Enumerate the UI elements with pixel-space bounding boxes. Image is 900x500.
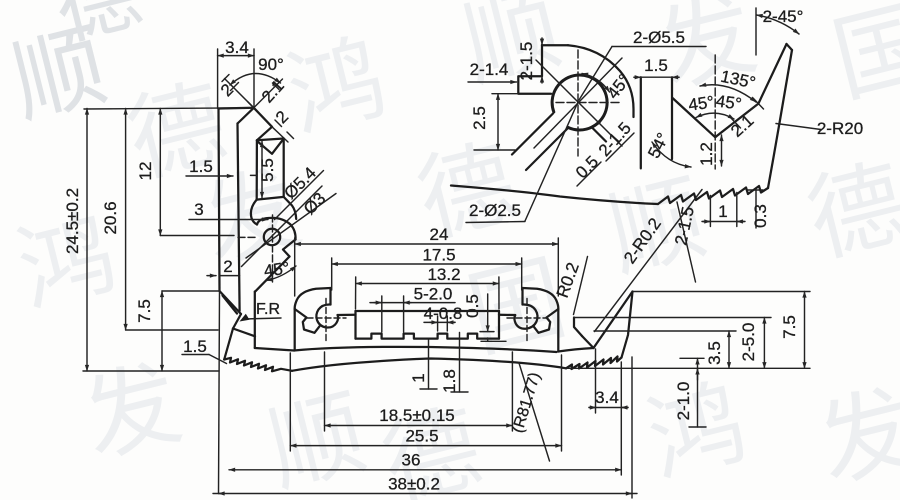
ext line y371 left bbox=[83, 370, 219, 372]
detail slot wall A bbox=[512, 114, 553, 155]
arc 45 deg boss bbox=[267, 266, 297, 281]
svg-text:3: 3 bbox=[194, 200, 203, 219]
svg-text:17.5: 17.5 bbox=[422, 246, 455, 265]
arc 45-45 deg bbox=[696, 113, 734, 119]
svg-text:1.2: 1.2 bbox=[697, 142, 716, 166]
detail bottom edge curve bbox=[451, 186, 658, 205]
detail R20 outer curve bbox=[768, 50, 792, 188]
dim 2-1.0 vertical bbox=[697, 358, 699, 427]
leader 2-1.5 serr bbox=[677, 202, 696, 282]
dim 2-5.0 vertical bbox=[763, 318, 765, 369]
dim 2-1.0 underline bbox=[689, 426, 706, 428]
svg-text:45°: 45° bbox=[715, 91, 743, 113]
arc 54 deg bbox=[652, 142, 691, 167]
dim 1.8 vertical bbox=[459, 333, 461, 393]
dim 4-0.8 line bbox=[424, 321, 455, 323]
leader diam 5.4 bbox=[275, 171, 324, 220]
left wall left face bbox=[219, 109, 220, 292]
dim 1.5 line wall bbox=[186, 175, 233, 177]
diag SE dim extension bbox=[272, 127, 288, 142]
ext y331 right bbox=[594, 330, 736, 332]
ext 18.5 verticals bbox=[325, 352, 513, 431]
svg-text:2-Ø5.5: 2-Ø5.5 bbox=[633, 28, 685, 47]
svg-text:2.5: 2.5 bbox=[470, 106, 489, 130]
diag NW from vertex bbox=[225, 79, 254, 108]
dim 2.5 vertical bbox=[497, 94, 499, 150]
wall foot right face bbox=[254, 292, 256, 349]
svg-text:1.5: 1.5 bbox=[183, 337, 207, 356]
svg-text:12: 12 bbox=[136, 162, 155, 181]
V-block left face bbox=[574, 318, 582, 337]
ext 25.5 verticals bbox=[290, 353, 561, 451]
arc 135 deg bbox=[700, 85, 756, 102]
ext y358 right bbox=[680, 357, 704, 359]
arc 90 deg bbox=[230, 73, 281, 85]
boss bottom diagonal to wall foot bbox=[255, 257, 290, 292]
leader 2-R20 bbox=[776, 124, 821, 130]
svg-text:2-1.0: 2-1.0 bbox=[674, 382, 693, 421]
detail V right arm bbox=[673, 98, 716, 137]
right clip crosshair centerlines bbox=[507, 299, 546, 342]
channel mouth chevron bbox=[258, 139, 284, 153]
F.R notch upper edge bbox=[220, 291, 242, 314]
ext 3.4 left vertical bbox=[595, 349, 597, 413]
dim 1 underline bbox=[420, 388, 437, 390]
underline 2-1.5 diag bbox=[606, 133, 634, 161]
detail boss step notch bbox=[592, 123, 607, 142]
head bottom-right tail into boss bbox=[284, 197, 297, 219]
screw boss outer arc bbox=[257, 218, 296, 240]
dim 7.5 right vertical bbox=[804, 292, 806, 369]
svg-text:13.2: 13.2 bbox=[427, 265, 460, 284]
ext 13.2 left vertical bbox=[355, 277, 357, 309]
ext 17.5 right vertical bbox=[521, 258, 523, 290]
ext 3.4 right vertical bbox=[253, 49, 255, 108]
ext 0.3 horizontal bbox=[748, 189, 763, 191]
ext 13.2 right vertical bbox=[498, 277, 500, 309]
dim 17.5 line bbox=[332, 263, 522, 265]
svg-text:2-Ø2.5: 2-Ø2.5 bbox=[469, 201, 521, 220]
ext 3.4 left vertical bbox=[217, 49, 219, 109]
leader 1.5 serration bbox=[209, 355, 227, 364]
svg-text:36: 36 bbox=[402, 451, 421, 470]
dim 1 serr verticals bbox=[710, 193, 736, 227]
head block right face bbox=[283, 139, 285, 197]
arrows 4-0.8 bbox=[430, 321, 438, 323]
tick on NW diag bbox=[222, 75, 239, 91]
ext 17.5 left vertical bbox=[331, 258, 333, 290]
dim 2 line wall bbox=[207, 275, 216, 277]
ext y291 right bbox=[633, 291, 810, 293]
ext 4-0.8 verticals bbox=[438, 316, 448, 331]
detail top right corner bbox=[787, 44, 793, 50]
ext line y235 bbox=[160, 235, 234, 237]
dim 1.2 vertical bbox=[721, 135, 723, 166]
ext y368 right bbox=[563, 367, 810, 369]
dim 5-2.0 line bbox=[370, 302, 455, 304]
F.R notch lower corner bbox=[233, 314, 241, 329]
svg-text:45°: 45° bbox=[687, 92, 715, 114]
leader 2-d2.5 underline bbox=[466, 222, 525, 223]
dim 2-1.4 line bbox=[468, 81, 517, 83]
dim 1.8 underline bbox=[451, 391, 468, 393]
F.R leader bbox=[244, 318, 281, 319]
svg-text:7.5: 7.5 bbox=[135, 299, 154, 323]
ext 0.5 horizontals bbox=[480, 332, 506, 342]
ext 36 right vertical bbox=[620, 362, 622, 475]
boss step notch bbox=[283, 240, 296, 257]
F.R leader arrowhead bbox=[240, 314, 250, 322]
detail centerline X1 bbox=[536, 60, 622, 146]
F.R notch inner edge bbox=[223, 296, 238, 314]
arc 45 deg detail bbox=[582, 74, 610, 93]
band bottom arc bbox=[292, 359, 566, 371]
svg-text:1: 1 bbox=[718, 202, 727, 221]
right C-clip foot lower edge bbox=[557, 309, 559, 352]
screw hole circle bbox=[264, 229, 280, 245]
svg-text:18.5±0.15: 18.5±0.15 bbox=[379, 406, 455, 425]
head block top edge bbox=[257, 139, 284, 141]
svg-text:24: 24 bbox=[430, 225, 449, 244]
detail step left faces bbox=[518, 45, 551, 94]
arrows 1.5 detail bbox=[634, 76, 641, 78]
ledge plate to clip right bbox=[499, 314, 515, 316]
ext y317 right bbox=[574, 317, 771, 319]
svg-text:20.6: 20.6 bbox=[101, 201, 120, 234]
ext 5-2.0 verticals bbox=[382, 296, 404, 332]
svg-text:F.R: F.R bbox=[256, 301, 280, 318]
tick on NE diag bbox=[248, 83, 279, 109]
dim 12 line bbox=[159, 109, 161, 236]
left foot serrations bbox=[224, 358, 292, 372]
dim 3.4 line bbox=[218, 55, 254, 57]
dim 1 gap vertical bbox=[428, 340, 430, 390]
dim 2 line wall inner bbox=[220, 275, 240, 277]
leader R0.2 bbox=[574, 257, 588, 315]
right C-clip outer bbox=[523, 288, 559, 309]
leader 2-d5.5 underline bbox=[612, 46, 706, 48]
svg-text:25.5: 25.5 bbox=[405, 427, 438, 446]
dim 18.5 line bbox=[325, 425, 513, 427]
dim 24.5 line bbox=[86, 109, 88, 372]
leader 2-d2.5 bbox=[525, 102, 578, 221]
leader 2-d5.5 bbox=[579, 47, 612, 101]
top reference extension line bbox=[84, 108, 254, 109]
right wall outer face bbox=[622, 292, 633, 358]
left wall top chamfer bbox=[238, 108, 254, 124]
svg-text:90°: 90° bbox=[258, 55, 284, 74]
ext 2.5 top bbox=[492, 93, 518, 95]
left wall top edge bbox=[219, 107, 254, 110]
foot left edge bbox=[224, 329, 233, 360]
svg-text:38±0.2: 38±0.2 bbox=[388, 475, 440, 494]
arc 2-45 deg bbox=[757, 15, 800, 34]
tick on SE diag bbox=[275, 120, 294, 139]
ext line y330 left bbox=[126, 329, 218, 331]
dim 13.2 line bbox=[356, 283, 499, 285]
head block bottom edge bbox=[257, 197, 284, 200]
detail bottom-left edge bbox=[474, 149, 515, 151]
svg-text:2-45°: 2-45° bbox=[763, 7, 804, 26]
dim 2-1.0 arrow up to 368 bbox=[697, 368, 699, 380]
ext 24 left vertical bbox=[294, 238, 296, 296]
detail horizontal centerline bbox=[556, 102, 620, 104]
svg-text:24.5±0.2: 24.5±0.2 bbox=[63, 188, 82, 254]
mid plate left edge bbox=[354, 311, 356, 339]
ledge clip to plate left bbox=[338, 314, 356, 316]
pocket floor clip to V-block bbox=[558, 348, 593, 352]
dim 5.5 vertical bbox=[261, 141, 263, 198]
diag NE from vertex bbox=[254, 79, 283, 108]
svg-text:1: 1 bbox=[409, 373, 428, 382]
right C-clip inner hole bbox=[514, 304, 537, 328]
leader R81.77 bbox=[519, 363, 550, 461]
detail boss circle bbox=[552, 75, 607, 130]
left clip crosshair centerlines bbox=[307, 299, 346, 342]
svg-text:2-1.4: 2-1.4 bbox=[470, 60, 509, 79]
boss horizontal centerline bbox=[238, 236, 258, 238]
pocket floor wall to clip bbox=[255, 348, 294, 351]
svg-text:1.5: 1.5 bbox=[189, 157, 213, 176]
dim 3 line bbox=[189, 219, 268, 221]
svg-text:5.5: 5.5 bbox=[258, 158, 277, 182]
notch bottom edge to foot face bbox=[233, 329, 255, 337]
dim 3.4 right line bbox=[589, 407, 628, 409]
svg-text:2-5.0: 2-5.0 bbox=[739, 323, 758, 362]
svg-text:1.8: 1.8 bbox=[440, 369, 459, 393]
left C-clip outer bbox=[295, 288, 331, 309]
dim 25.5 line bbox=[290, 445, 561, 447]
svg-text:4-0.8: 4-0.8 bbox=[424, 304, 463, 323]
detail serrations bbox=[658, 186, 768, 204]
svg-text:3.4: 3.4 bbox=[595, 388, 619, 407]
dim 0.5 vertical bbox=[487, 294, 489, 332]
detail slot wall B bbox=[526, 129, 568, 171]
arrows 38 bbox=[219, 493, 225, 495]
dim 2-1.5 step arrows bbox=[541, 38, 543, 45]
detail slab right face bbox=[671, 77, 673, 159]
svg-text:2: 2 bbox=[223, 257, 232, 276]
mid plate right edge bbox=[498, 311, 500, 339]
right foot serrations bbox=[566, 357, 622, 370]
head block top zigzag from vertex bbox=[254, 108, 272, 141]
ext 2-45 vertical bbox=[755, 8, 757, 55]
ticks 2.1 bbox=[730, 98, 764, 128]
right wall inner slanted face bbox=[594, 292, 633, 349]
ext line y291 left bbox=[162, 290, 219, 292]
left wall inner channel face bbox=[238, 124, 240, 312]
ext 38 right vertical bbox=[631, 357, 633, 498]
leader 1.5 serration underline bbox=[182, 354, 209, 356]
dim 2.1 line along arm bbox=[741, 104, 758, 118]
dim 20.6 line bbox=[125, 109, 127, 331]
left C-clip foot notch bbox=[295, 309, 320, 333]
detail vertical centerline bbox=[577, 50, 579, 156]
right C-clip left face bbox=[521, 288, 523, 305]
dim 1.5 detail line bbox=[634, 76, 679, 78]
underline 0.5 diag bbox=[577, 162, 601, 186]
svg-text:0.3: 0.3 bbox=[751, 204, 770, 228]
tick 5.5 left bbox=[251, 174, 258, 176]
left C-clip inner hole bbox=[316, 304, 338, 327]
V-block notch bbox=[582, 336, 594, 348]
head block left face (channel right wall) bbox=[256, 140, 258, 199]
detail step top edge bbox=[542, 44, 568, 46]
svg-text:7.5: 7.5 bbox=[780, 315, 799, 339]
dim 7.5 left line bbox=[161, 291, 163, 371]
detail boss outer arc bbox=[568, 45, 634, 117]
arrows 5-2.0 bbox=[374, 302, 382, 304]
right C-clip foot notch bbox=[534, 309, 559, 333]
head bottom-left tail into boss bbox=[251, 200, 257, 225]
left C-clip right face bbox=[329, 288, 331, 305]
dim 3.5 vertical bbox=[728, 331, 730, 368]
leader 2-R0.2 long diagonal bbox=[595, 190, 703, 332]
dim 1 serr line bbox=[702, 221, 745, 223]
boss vertical centerline bbox=[272, 215, 274, 284]
svg-text:0.5: 0.5 bbox=[463, 294, 482, 318]
svg-text:45°: 45° bbox=[263, 258, 291, 280]
detail slab left face bbox=[640, 77, 642, 168]
mid plate toothed bottom edge bbox=[356, 334, 500, 339]
arrows 3.4 right bbox=[589, 407, 596, 409]
arrows 1 serr bbox=[703, 221, 710, 223]
dim 24 line bbox=[295, 243, 559, 245]
dim 38 line bbox=[213, 493, 637, 495]
band top surface arc bbox=[294, 347, 557, 352]
left C-clip foot lower edge bbox=[294, 309, 296, 351]
svg-text:2-1.5: 2-1.5 bbox=[517, 42, 536, 81]
boss diagonal centerline bbox=[242, 186, 323, 267]
detail slanted top face bbox=[758, 44, 786, 104]
detail V left arm bbox=[715, 104, 758, 138]
svg-text:3.5: 3.5 bbox=[705, 341, 724, 365]
svg-text:1.5: 1.5 bbox=[644, 56, 668, 75]
svg-text:3.4: 3.4 bbox=[225, 38, 249, 57]
svg-text:2-R20: 2-R20 bbox=[817, 119, 863, 138]
dim 0.3 vertical bbox=[755, 190, 757, 229]
svg-text:5-2.0: 5-2.0 bbox=[414, 285, 453, 304]
left wall extension to bottom bbox=[219, 291, 220, 494]
mid plate top edge bbox=[356, 310, 500, 312]
detail centerline X2 bbox=[534, 58, 622, 148]
ext 24 right vertical bbox=[557, 238, 559, 296]
detail V centerline bbox=[714, 55, 716, 169]
dim 36 line bbox=[229, 469, 621, 471]
leader diam 3 bbox=[246, 194, 336, 259]
